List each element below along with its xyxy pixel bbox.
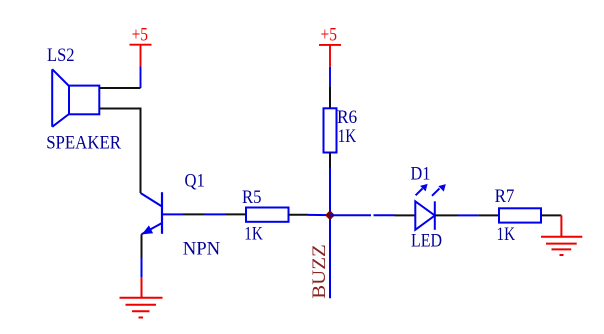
wire R6 to BUZZ net [329, 153, 331, 299]
LED light arrow 1 [416, 184, 428, 195]
resistor R7 [499, 208, 541, 222]
resistor R5 [246, 208, 289, 222]
svg-text:1K: 1K [244, 224, 263, 245]
transistor emitter arrow [142, 225, 153, 234]
LED D1 [415, 201, 435, 230]
power +5 (middle) [319, 45, 341, 87]
svg-text:LED: LED [411, 230, 442, 251]
svg-text:R5: R5 [242, 187, 261, 208]
wire speaker top to +5 corner [99, 87, 140, 89]
wire R7 to ground [541, 214, 561, 216]
wire speaker bottom [99, 109, 140, 194]
speaker LS2 [52, 69, 99, 127]
transistor Q1 [141, 192, 184, 234]
wire base to R5 [183, 213, 246, 215]
svg-text:D1: D1 [411, 164, 431, 185]
svg-text:+5: +5 [132, 25, 148, 46]
svg-text:+5: +5 [321, 25, 337, 46]
svg-text:LS2: LS2 [47, 45, 75, 66]
svg-text:1K: 1K [497, 224, 516, 245]
power +5 (left) [130, 45, 152, 88]
wire junction to LED [330, 214, 415, 216]
svg-text:Q1: Q1 [185, 170, 205, 191]
ground (right) [541, 215, 582, 255]
junction dot [325, 210, 335, 220]
wire +5 to R6 [329, 86, 331, 108]
svg-text:R6: R6 [337, 107, 357, 128]
svg-text:SPEAKER: SPEAKER [46, 132, 121, 153]
wire R5 to junction [289, 214, 331, 216]
svg-text:R7: R7 [495, 186, 515, 207]
ground (left) [120, 277, 163, 318]
svg-text:BUZZ: BUZZ [309, 244, 330, 299]
LED light arrow 2 [432, 184, 446, 196]
svg-text:NPN: NPN [183, 238, 221, 259]
wire emitter to ground [141, 234, 143, 277]
resistor R6 [324, 108, 337, 152]
wire LED to R7 [435, 214, 499, 216]
svg-text:1K: 1K [338, 126, 357, 147]
